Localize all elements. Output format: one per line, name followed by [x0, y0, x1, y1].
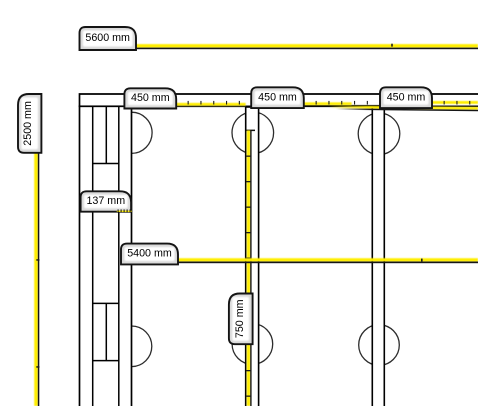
dimension label "5400 mm"	[121, 244, 178, 265]
hole circle H2 (top, on stud S2)	[232, 112, 274, 154]
svg-text:137 mm: 137 mm	[86, 195, 125, 207]
hole circle H3 (top, on stud S3)	[358, 113, 400, 155]
corner post ply line at x=118.8	[118, 107, 120, 406]
corner post outer box	[80, 106, 132, 406]
hole circle H5 (bottom, on stud S2)	[232, 324, 273, 365]
corner post blocking line y=360.6	[93, 360, 119, 362]
stud S2	[246, 107, 259, 406]
dimension line 5400 (yellow horizontal, middle)	[178, 258, 478, 263]
hole circle H1 (top, on corner post)	[111, 112, 152, 153]
dimension label "450 mm" (first)	[124, 88, 176, 108]
corner post blocking line y=303.4	[93, 302, 119, 304]
stud S3	[372, 107, 384, 406]
dimension label "2500 mm" (rotated)	[18, 94, 41, 153]
svg-text:450 mm: 450 mm	[258, 91, 297, 103]
svg-text:450 mm: 450 mm	[387, 91, 426, 103]
svg-text:5600 mm: 5600 mm	[85, 32, 130, 44]
dimension label "450 mm" (third)	[380, 87, 432, 108]
svg-text:2500 mm: 2500 mm	[22, 101, 34, 146]
dimension line 5600 (yellow horizontal, top)	[136, 44, 478, 49]
dimension line 750 (yellow vertical on stud S2)	[246, 130, 255, 406]
svg-text:750 mm: 750 mm	[234, 299, 246, 338]
dimension label "137 mm"	[81, 191, 132, 211]
dimension line 450 ruler (yellow, along plate)	[132, 101, 478, 111]
svg-text:5400 mm: 5400 mm	[127, 248, 172, 260]
corner post middle ply lower segment	[105, 303, 107, 360]
dimension line 2500 (yellow vertical, left)	[34, 153, 39, 406]
dimension label "450 mm" (second)	[251, 87, 304, 108]
corner post ply line at x=92.7	[92, 107, 94, 406]
dimension label "5600 mm"	[80, 27, 137, 50]
hole circle H6 (bottom, on stud S3)	[359, 325, 400, 366]
mini ruler ticks under 137 mm label	[117, 209, 132, 212]
corner post blocking line y=163.5	[93, 163, 119, 165]
svg-text:450 mm: 450 mm	[131, 92, 170, 104]
dimension label "750 mm" (rotated)	[229, 294, 253, 345]
hole circle H4 (bottom, on corner post)	[111, 326, 152, 367]
corner post middle ply upper segment	[105, 107, 107, 164]
wall top plate	[80, 94, 478, 106]
